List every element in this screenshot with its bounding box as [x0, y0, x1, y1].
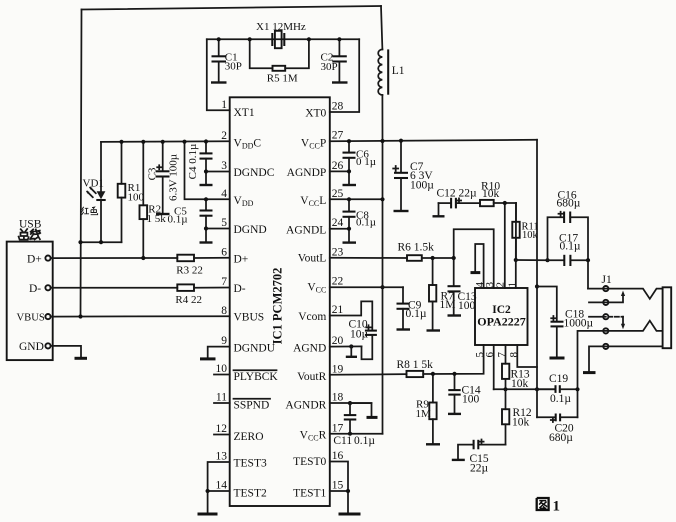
svg-text:R4 22: R4 22: [175, 294, 202, 306]
svg-text:27: 27: [332, 130, 344, 142]
resistor R6: [398, 242, 435, 261]
wire J1 switch R dash-dot with arrow: [589, 317, 625, 330]
terminal J1 switch L circle: [603, 300, 608, 305]
svg-text:D+: D+: [234, 254, 249, 266]
svg-text:R6 1.5k: R6 1.5k: [398, 242, 435, 254]
wire pin-13 TEST3: [208, 462, 230, 512]
wire XT0 drop to pin 28: [330, 39, 359, 112]
wire pin-5 DGND stub: [206, 228, 230, 230]
label USB zongxian (bus): [19, 229, 41, 240]
IC U1 PCM2702 body: [230, 97, 330, 506]
crystal X1: [256, 21, 306, 48]
node TEST2 junction: [206, 489, 210, 493]
wire pin-18 AGNDR stub: [330, 402, 372, 404]
svg-text:DGND: DGND: [234, 224, 267, 236]
capacitor C8: [343, 199, 377, 242]
svg-text:0.1µ: 0.1µ: [356, 217, 376, 229]
svg-text:SSPND: SSPND: [234, 399, 270, 411]
IC U2 OPA2227 body: [475, 288, 528, 345]
svg-text:TEST0: TEST0: [293, 456, 326, 468]
svg-text:C11: C11: [333, 435, 352, 447]
wire pin-25 VccL stub: [330, 198, 383, 200]
svg-text:19: 19: [332, 363, 344, 375]
svg-text:2: 2: [495, 282, 507, 288]
svg-text:R3 22: R3 22: [176, 264, 203, 276]
node AGNDR junction: [348, 401, 352, 405]
svg-text:10k: 10k: [511, 378, 529, 390]
svg-text:0.1µ: 0.1µ: [168, 213, 188, 225]
svg-text:VCCR: VCCR: [300, 430, 327, 443]
svg-text:22µ: 22µ: [470, 462, 489, 474]
svg-text:VDDC: VDDC: [234, 138, 262, 151]
wire pin-16 TEST0: [330, 462, 348, 513]
svg-text:20: 20: [332, 335, 344, 347]
svg-text:C3: C3: [147, 167, 159, 180]
svg-text:10k: 10k: [512, 417, 530, 429]
svg-text:100: 100: [128, 191, 145, 203]
resistor R2: [140, 142, 167, 258]
capacitor C10: [349, 319, 377, 360]
terminal J1 sleeve circle: [603, 344, 608, 349]
wire D+ line to pin 6: [194, 257, 230, 259]
LED VD1: [83, 142, 106, 242]
node C17 right junction: [586, 258, 590, 262]
wire L1 top lead: [381, 6, 382, 49]
svg-text:X1 12MHz: X1 12MHz: [256, 21, 306, 33]
svg-text:0.1µ: 0.1µ: [354, 435, 375, 447]
svg-text:AGND: AGND: [293, 342, 326, 354]
wire D+ line: [51, 257, 178, 259]
svg-text:26: 26: [332, 160, 344, 172]
ground USB GND: [75, 357, 88, 360]
svg-text:0.1µ: 0.1µ: [406, 308, 427, 320]
svg-text:ZERO: ZERO: [234, 431, 264, 443]
svg-text:AGNDP: AGNDP: [287, 167, 327, 179]
svg-text:1M: 1M: [416, 408, 432, 420]
wire D- line: [51, 287, 178, 289]
svg-text:1: 1: [553, 499, 561, 515]
wire pin-21 Vcom jog: [330, 301, 373, 330]
capacitor C18: [537, 287, 594, 359]
terminal J1 switch R circle: [603, 314, 608, 319]
pin 4 IC2 ground jog: [471, 244, 484, 288]
node C18 branch junction: [535, 284, 539, 288]
capacitor C13: [448, 258, 477, 316]
node crystal rail junctions: [217, 37, 342, 41]
wire pin-12 ZERO stub: [214, 434, 230, 436]
svg-text:0.1µ: 0.1µ: [550, 393, 571, 405]
node TEST1 junction: [346, 489, 350, 493]
svg-text:DGNDC: DGNDC: [234, 167, 275, 179]
plug sleeve body bar: [663, 287, 672, 348]
capacitor C20: [537, 414, 578, 444]
capacitor C5: [168, 199, 213, 242]
svg-text:10k: 10k: [522, 230, 539, 241]
resistor R8: [397, 359, 434, 377]
svg-text:17: 17: [332, 422, 344, 434]
wire J1 sleeve to ground: [583, 346, 663, 372]
svg-text:9: 9: [221, 335, 227, 347]
terminal J1 ring R circle: [603, 328, 608, 333]
capacitor C1: [211, 39, 242, 82]
node C16/C17 left junction: [545, 258, 549, 262]
svg-text:J1: J1: [602, 274, 612, 286]
svg-text:VDD: VDD: [234, 195, 254, 208]
wire pin-3 DGNDC stub: [206, 171, 230, 173]
wire pin-2 IC2 riser: [504, 203, 506, 288]
svg-text:16: 16: [332, 450, 344, 462]
resistor R9: [416, 374, 441, 444]
capacitor C6: [343, 141, 377, 185]
resistor R10: [480, 181, 516, 207]
wire pin-22 Vcc stub: [330, 286, 403, 288]
label figure caption tu 1: [537, 498, 560, 515]
wire V+ to pin 8 IC2: [517, 345, 537, 367]
label red (hongse) for VD1: [81, 207, 97, 215]
svg-text:OPA2227: OPA2227: [477, 315, 525, 329]
wire OUT B feedback line: [494, 388, 556, 390]
svg-text:21: 21: [332, 304, 344, 316]
svg-text:24: 24: [332, 217, 344, 229]
wire pin-17 VccR stub: [330, 433, 383, 435]
wire D- line to pin 7: [194, 287, 230, 289]
wire pin-10 PLYBCK stub: [214, 374, 230, 376]
wire pin-1 OUT A riser: [515, 203, 517, 288]
resistor R4: [175, 284, 202, 306]
svg-text:7: 7: [221, 276, 227, 288]
svg-text:C4 0.1µ: C4 0.1µ: [187, 144, 199, 180]
node OUT B junctions: [503, 387, 539, 391]
svg-text:VBUS: VBUS: [17, 313, 45, 324]
svg-text:6: 6: [221, 246, 227, 258]
ground TEST0/TEST1: [339, 513, 361, 516]
svg-text:28: 28: [332, 101, 344, 113]
wire pin-14 TEST2: [208, 490, 230, 492]
svg-text:15: 15: [332, 480, 344, 492]
svg-text:13: 13: [216, 451, 228, 463]
capacitor C14: [448, 374, 481, 414]
svg-text:10: 10: [216, 363, 228, 375]
resistor R1: [118, 142, 145, 242]
svg-text:C19: C19: [549, 373, 568, 385]
wire pin-24 AGNDL stub: [330, 228, 349, 230]
connector USB bus box: [7, 218, 53, 360]
svg-text:IC1 PCM2702: IC1 PCM2702: [271, 268, 285, 345]
node pin-27 rail junctions: [347, 139, 403, 436]
svg-text:18: 18: [332, 392, 344, 404]
svg-text:11: 11: [216, 392, 227, 404]
svg-text:100: 100: [462, 394, 480, 406]
capacitor C16: [548, 189, 589, 288]
svg-text:Vcom: Vcom: [298, 311, 326, 323]
wire pin-26 AGNDP stub: [330, 170, 349, 172]
node OUT A junction: [514, 258, 518, 262]
svg-text:VD1: VD1: [83, 178, 104, 190]
wire VBUS line: [51, 315, 230, 317]
resistor R11: [512, 203, 538, 260]
capacitor C9: [397, 287, 427, 329]
svg-text:0 1µ: 0 1µ: [356, 156, 376, 168]
capacitor C3: [147, 142, 180, 214]
node R2/D+ junction: [141, 256, 145, 260]
svg-text:XT1: XT1: [234, 107, 255, 119]
svg-text:10k: 10k: [482, 188, 500, 200]
wire crystal top rail: [207, 38, 359, 40]
node R10 output junction: [503, 201, 507, 205]
svg-text:TEST3: TEST3: [234, 458, 267, 470]
ground TEST3/TEST2: [198, 513, 218, 516]
svg-text:22: 22: [332, 276, 344, 288]
wire L1 bottom lead: [381, 95, 383, 141]
svg-text:R8 1 5k: R8 1 5k: [397, 359, 434, 371]
wire +IN A jog to pin 3: [454, 229, 494, 288]
svg-text:D+: D+: [27, 253, 42, 265]
wire pin-9 DGNDU: [208, 347, 230, 357]
wire J1 switch L with arrow: [589, 291, 625, 303]
wire pin-6 IC2 drop: [493, 345, 495, 389]
ground DGNDU: [200, 357, 216, 360]
wire pin-15 TEST1: [330, 490, 348, 492]
wire VoutL node: [422, 257, 454, 259]
svg-text:100: 100: [458, 300, 476, 312]
node VBUS riser junction: [78, 314, 82, 318]
node VoutR junctions: [431, 372, 457, 376]
terminal GND circle: [45, 343, 50, 348]
wire GND line: [51, 346, 81, 356]
svg-text:VCCP: VCCP: [301, 138, 326, 151]
svg-text:30P: 30P: [225, 61, 242, 73]
wire pin-23 VoutL line: [330, 257, 407, 259]
pin label PLYBCK with overline: [234, 370, 279, 383]
wire VoutR node to pin 5: [423, 345, 483, 374]
capacitor C19: [537, 373, 578, 405]
svg-text:GND: GND: [19, 341, 44, 353]
node VoutL junctions: [431, 256, 456, 260]
wire left border VBUS riser: [81, 10, 82, 317]
resistor R12: [502, 389, 532, 444]
terminal D- circle: [45, 285, 50, 290]
svg-text:14: 14: [216, 480, 228, 492]
wire J1 ring line with plug ring notch: [579, 321, 663, 331]
wire XT1 drop to pin 1: [207, 39, 230, 110]
svg-text:680µ: 680µ: [557, 198, 581, 210]
svg-text:100µ: 100µ: [410, 179, 434, 191]
svg-text:12: 12: [216, 423, 228, 435]
terminal VBUS circle: [45, 314, 50, 319]
resistor R7: [427, 258, 456, 331]
svg-text:L1: L1: [392, 65, 405, 77]
svg-text:25: 25: [332, 188, 344, 200]
svg-text:0.1µ: 0.1µ: [560, 240, 581, 252]
node power rail junctions: [78, 139, 208, 244]
wire pin-27 VccP rail: [330, 140, 537, 142]
resistor R5: [250, 39, 309, 84]
capacitor C12: [433, 187, 481, 216]
svg-text:8: 8: [221, 305, 227, 317]
wire pin-11 SSPND stub: [214, 402, 230, 404]
resistor R3: [176, 255, 203, 277]
wire Vcc rail drop right side: [536, 140, 538, 418]
node AGND junction: [349, 344, 353, 348]
svg-text:TEST2: TEST2: [234, 487, 267, 499]
capacitor C17: [548, 232, 589, 266]
svg-text:10µ: 10µ: [350, 329, 369, 341]
wire top border VBUS-to-L1: [82, 6, 382, 10]
ground AGNDR stub: [350, 403, 378, 417]
wire VBUS indicator bottom rail: [81, 241, 122, 243]
capacitor C15: [452, 440, 506, 475]
wire OUT A to coupling caps: [516, 259, 548, 261]
ground AGND stub bar: [346, 347, 357, 357]
resistor R13: [502, 345, 530, 390]
svg-text:AGNDL: AGNDL: [286, 225, 326, 237]
svg-text:VoutR: VoutR: [297, 371, 327, 383]
capacitor C11: [333, 403, 375, 447]
svg-text:1000µ: 1000µ: [564, 318, 594, 330]
svg-text:680µ: 680µ: [549, 432, 573, 444]
wire VddC pin-2 rail: [101, 140, 230, 143]
svg-text:D-: D-: [234, 283, 246, 295]
svg-text:TEST1: TEST1: [293, 487, 326, 499]
svg-text:DGNDU: DGNDU: [234, 343, 276, 355]
capacitor C7: [393, 141, 434, 211]
svg-text:23: 23: [332, 246, 344, 258]
wire pin-20 AGND stub: [330, 345, 362, 347]
svg-text:30P: 30P: [321, 61, 338, 73]
svg-text:C12 22µ: C12 22µ: [437, 187, 478, 199]
terminal J1 tip L circle: [603, 286, 608, 291]
pin label SSPND with overline: [234, 399, 271, 412]
wire pin-19 VoutR line: [330, 373, 407, 376]
svg-text:6.3V 100µ: 6.3V 100µ: [168, 154, 180, 201]
wire OUT B riser to J1 ring: [577, 331, 579, 417]
svg-text:4: 4: [221, 188, 227, 200]
capacitor C2: [321, 39, 348, 82]
svg-text:USB: USB: [19, 218, 42, 230]
svg-text:1: 1: [221, 99, 227, 111]
svg-text:D-: D-: [29, 283, 41, 295]
wire pin-4 Vdd loop: [185, 142, 230, 200]
svg-text:VCC: VCC: [307, 281, 326, 294]
node OUT B riser junction: [575, 387, 579, 391]
wire Vcc side rail L1-to-pin17: [382, 141, 384, 434]
svg-text:5: 5: [221, 217, 227, 229]
svg-text:PLYBCK: PLYBCK: [234, 371, 279, 383]
svg-text:VBUS: VBUS: [234, 312, 265, 324]
svg-text:R5 1M: R5 1M: [267, 72, 298, 84]
svg-text:AGNDR: AGNDR: [285, 400, 326, 412]
wire J1 tip line with plug tip notch: [588, 289, 663, 299]
terminal D+ circle: [45, 256, 50, 261]
svg-text:VoutL: VoutL: [298, 252, 327, 264]
capacitor C4: [187, 142, 213, 186]
inductor L1: [378, 49, 405, 95]
svg-text:3: 3: [221, 160, 227, 172]
svg-text:XT0: XT0: [305, 108, 326, 120]
svg-text:VCCL: VCCL: [300, 195, 326, 208]
svg-text:2: 2: [221, 130, 227, 142]
